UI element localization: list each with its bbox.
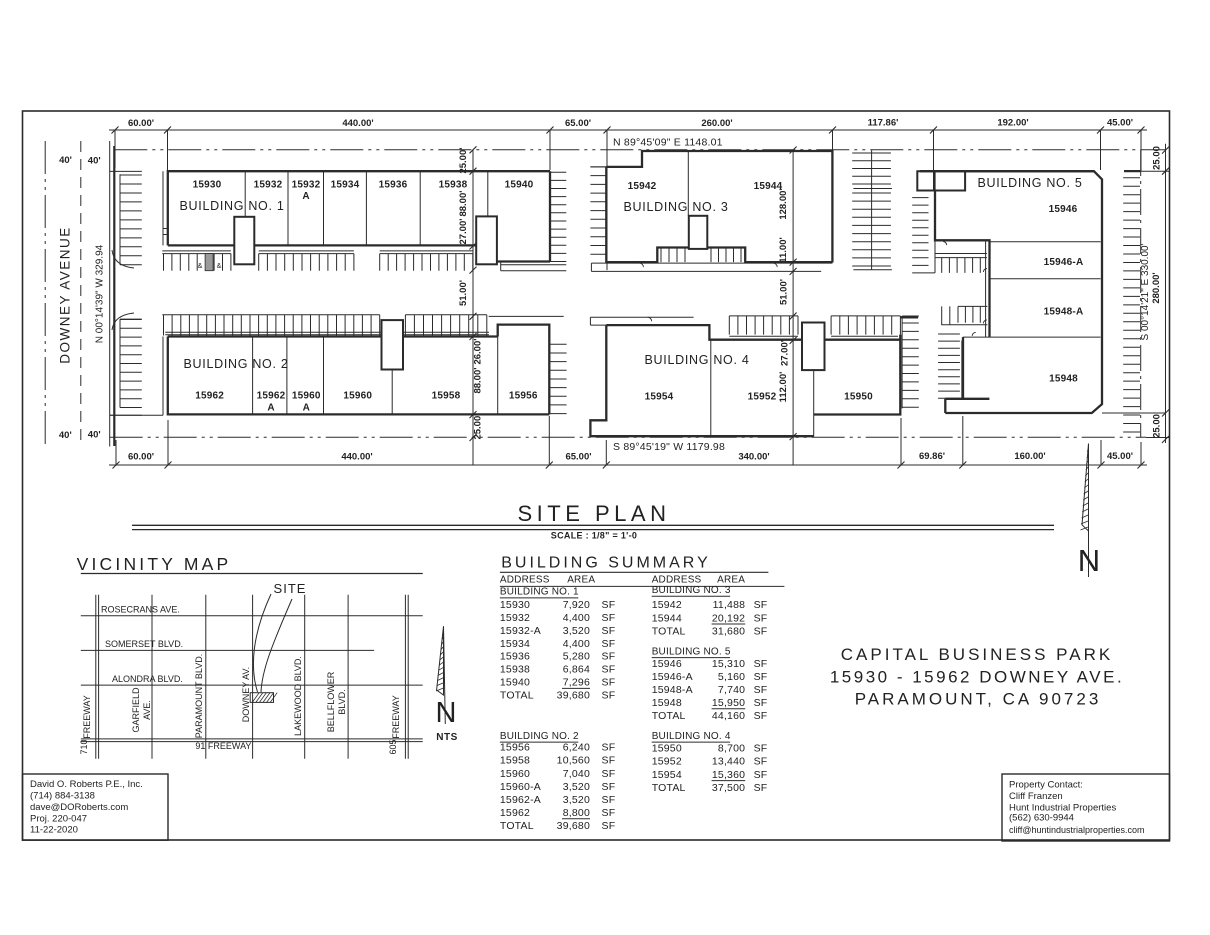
- svg-text:15946-A: 15946-A: [1044, 257, 1084, 268]
- building 4 door mark: [648, 317, 652, 321]
- building 3 inset stalls: [661, 248, 741, 263]
- building 4 north walkway band upper-left: [590, 317, 693, 325]
- svg-text:SF: SF: [602, 612, 616, 624]
- building 3 door marks: [639, 263, 777, 267]
- vicinity map 91 freeway double line: [81, 739, 423, 742]
- svg-text:SF: SF: [754, 599, 768, 611]
- site marker hatched: [250, 693, 277, 703]
- street centerline dash-dot-dot: [44, 141, 46, 447]
- svg-text:15934: 15934: [500, 638, 530, 650]
- svg-text:7,920: 7,920: [563, 599, 590, 611]
- svg-text:SF: SF: [754, 782, 768, 794]
- svg-text:3,520: 3,520: [563, 794, 590, 806]
- svg-text:SITE PLAN: SITE PLAN: [518, 501, 671, 526]
- svg-text:SF: SF: [602, 768, 616, 780]
- building 4 outline: [590, 317, 918, 436]
- site leader curves: [253, 594, 292, 692]
- svg-text:BELLFLOWER: BELLFLOWER: [326, 671, 336, 732]
- svg-text:DOWNEY AVENUE: DOWNEY AVENUE: [58, 226, 73, 364]
- svg-text:BUILDING NO. 4: BUILDING NO. 4: [652, 731, 731, 742]
- building 2 north parking comb: [162, 315, 487, 336]
- svg-text:25.00: 25.00: [1152, 146, 1163, 170]
- svg-text:SF: SF: [602, 781, 616, 793]
- right center dimension line: [792, 150, 794, 465]
- building 1 east parking comb: [550, 172, 567, 261]
- building 2 east parking comb: [489, 316, 567, 413]
- svg-text:15962: 15962: [500, 807, 530, 819]
- svg-text:51.00': 51.00': [778, 279, 789, 305]
- svg-text:N 00°14'39" W 329.94: N 00°14'39" W 329.94: [95, 244, 106, 343]
- svg-text:39,680: 39,680: [557, 820, 590, 832]
- vicinity map street downey: [252, 595, 254, 759]
- svg-text:15932: 15932: [292, 180, 321, 191]
- svg-text:440.00': 440.00': [341, 452, 372, 463]
- svg-text:cliff@huntindustrialproperties: cliff@huntindustrialproperties.com: [1009, 825, 1145, 835]
- svg-text:SF: SF: [602, 677, 616, 689]
- svg-text:A: A: [302, 191, 309, 202]
- svg-text:7,296: 7,296: [563, 677, 590, 689]
- vicinity map street 710 freeway double: [96, 595, 99, 759]
- svg-text:39,680: 39,680: [557, 690, 590, 702]
- svg-text:15932: 15932: [254, 180, 283, 191]
- central dimension line: [472, 150, 474, 465]
- svg-text:15948: 15948: [1049, 374, 1078, 385]
- svg-text:37,500: 37,500: [712, 782, 745, 794]
- svg-text:5,160: 5,160: [718, 671, 745, 683]
- building 4 north parking comb: [729, 316, 900, 335]
- svg-text:A: A: [267, 403, 274, 414]
- svg-text:192.00': 192.00': [997, 118, 1028, 129]
- vicinity map street lakewood: [304, 595, 306, 759]
- svg-text:TOTAL: TOTAL: [652, 782, 686, 794]
- svg-text:6,864: 6,864: [563, 664, 590, 676]
- svg-text:SF: SF: [602, 599, 616, 611]
- svg-text:4,400: 4,400: [563, 638, 590, 650]
- svg-text:Property Contact:: Property Contact:: [1009, 780, 1083, 791]
- svg-text:15954: 15954: [645, 392, 674, 403]
- building 5 courtyard inner wall: [985, 240, 987, 337]
- street east edge line: [109, 141, 111, 447]
- svg-text:15962: 15962: [195, 391, 224, 402]
- street dashed lane line: [80, 141, 82, 447]
- building 3 outline: [606, 151, 832, 263]
- building 2 north walkway band: [165, 332, 489, 335]
- svg-text:SF: SF: [602, 794, 616, 806]
- svg-text:15948-A: 15948-A: [652, 684, 693, 696]
- svg-text:ALONDRA BLVD.: ALONDRA BLVD.: [112, 674, 183, 684]
- west parking comb lower: [110, 319, 142, 415]
- building 1 vestibule B: [476, 216, 497, 264]
- svg-text:BUILDING NO. 5: BUILDING NO. 5: [652, 646, 731, 657]
- svg-text:BUILDING NO. 5: BUILDING NO. 5: [978, 176, 1083, 190]
- svg-text:15960-A: 15960-A: [500, 781, 541, 793]
- svg-text:11,488: 11,488: [713, 599, 746, 611]
- vicinity map street paramount: [205, 595, 207, 759]
- svg-text:15960: 15960: [292, 391, 321, 402]
- bottom dimension extension lines: [116, 416, 1141, 465]
- svg-text:15952: 15952: [652, 756, 682, 768]
- svg-text:PARAMOUNT BLVD.: PARAMOUNT BLVD.: [194, 654, 204, 739]
- west parking comb upper: [110, 171, 142, 264]
- vicinity north arrow needle: [437, 626, 444, 695]
- svg-text:15938: 15938: [500, 664, 530, 676]
- building 4 north walkway band right: [729, 335, 898, 337]
- svg-text:117.86': 117.86': [868, 118, 899, 129]
- svg-text:A: A: [303, 403, 310, 414]
- building summary header underline: [500, 585, 785, 587]
- svg-text:160.00': 160.00': [1014, 451, 1045, 462]
- svg-text:PARAMOUNT, CA 90723: PARAMOUNT, CA 90723: [855, 690, 1102, 709]
- svg-text:15936: 15936: [500, 651, 530, 663]
- svg-text:15932: 15932: [500, 612, 530, 624]
- svg-text:SF: SF: [754, 671, 768, 683]
- property contact box: [1002, 774, 1170, 841]
- svg-text:CAPITAL BUSINESS PARK: CAPITAL BUSINESS PARK: [841, 645, 1113, 664]
- building 5 lower west wall: [961, 340, 963, 399]
- svg-text:15930: 15930: [500, 599, 530, 611]
- svg-text:11-22-2020: 11-22-2020: [30, 824, 78, 835]
- north arrow needle: [1082, 444, 1089, 532]
- svg-text:15958: 15958: [432, 391, 461, 402]
- driveway curb return upper: [112, 250, 134, 268]
- svg-text:27.00': 27.00': [458, 218, 469, 244]
- svg-text:SF: SF: [602, 651, 616, 663]
- building 1 unit separators: [245, 171, 497, 261]
- courtyard comb west of building 5 lower: [938, 334, 960, 398]
- svg-text:15960: 15960: [500, 768, 530, 780]
- svg-text:N: N: [1078, 543, 1100, 578]
- svg-text:15,360: 15,360: [712, 769, 745, 781]
- building 2 unit separators: [253, 325, 498, 415]
- building 5 east parking comb: [1123, 178, 1140, 432]
- building 2 west offset line: [110, 337, 163, 416]
- svg-text:128.00': 128.00': [778, 188, 789, 219]
- svg-text:91 FREEWAY: 91 FREEWAY: [195, 741, 251, 751]
- svg-text:60.00': 60.00': [128, 452, 154, 463]
- svg-text:51.00': 51.00': [458, 280, 469, 306]
- svg-text:27.00': 27.00': [780, 340, 791, 366]
- svg-text:ADDRESS: ADDRESS: [500, 574, 550, 585]
- svg-text:NTS: NTS: [436, 732, 458, 743]
- svg-text:TOTAL: TOTAL: [652, 626, 686, 638]
- svg-text:15948-A: 15948-A: [1044, 307, 1084, 318]
- vicinity map rosecrans ave line: [81, 615, 423, 617]
- drive comb west of building 3: [590, 130, 607, 270]
- svg-text:SF: SF: [602, 690, 616, 702]
- svg-text:112.00': 112.00': [778, 372, 789, 403]
- building 5 top edge: [920, 170, 1094, 172]
- svg-text:15946: 15946: [652, 658, 682, 670]
- svg-text:BUILDING NO. 3: BUILDING NO. 3: [652, 585, 731, 596]
- north arrow stem: [1088, 444, 1090, 578]
- svg-text:dave@DORoberts.com: dave@DORoberts.com: [30, 802, 128, 813]
- svg-text:15952: 15952: [748, 392, 777, 403]
- svg-text:3,520: 3,520: [563, 625, 590, 637]
- building summary title underline: [500, 571, 769, 573]
- building 3 unit separator: [687, 151, 689, 216]
- building 1 south parking stalls: [164, 254, 473, 271]
- svg-text:11.00': 11.00': [778, 237, 789, 263]
- svg-text:SF: SF: [602, 625, 616, 637]
- svg-text:BUILDING NO. 4: BUILDING NO. 4: [645, 353, 750, 367]
- svg-text:SF: SF: [602, 807, 616, 819]
- svg-text:SF: SF: [754, 710, 768, 722]
- vicinity map title underline: [81, 573, 423, 575]
- svg-text:FREEWAY: FREEWAY: [82, 695, 92, 739]
- svg-text:SF: SF: [602, 820, 616, 832]
- svg-text:15962-A: 15962-A: [500, 794, 541, 806]
- svg-text:40': 40': [59, 430, 72, 441]
- building 4 unit separator: [710, 340, 712, 437]
- svg-text:SF: SF: [602, 638, 616, 650]
- svg-text:15954: 15954: [652, 769, 682, 781]
- building 5 west wall thin extension: [934, 240, 936, 273]
- svg-text:BUILDING SUMMARY: BUILDING SUMMARY: [501, 555, 711, 572]
- svg-text:25.00': 25.00': [473, 413, 484, 439]
- svg-text:3,520: 3,520: [563, 781, 590, 793]
- svg-text:DOWNEY AV.: DOWNEY AV.: [241, 667, 251, 722]
- svg-text:88.00': 88.00': [458, 190, 469, 216]
- parcel west boundary heavy: [113, 146, 115, 446]
- building 3 vestibule: [689, 216, 708, 249]
- svg-text:LAKEWOOD BLVD.: LAKEWOOD BLVD.: [293, 656, 303, 736]
- building 5 courtyard walkway upper: [935, 254, 987, 258]
- svg-text:SF: SF: [754, 769, 768, 781]
- svg-text:S 00°14'21" E 330.00': S 00°14'21" E 330.00': [1140, 243, 1151, 340]
- svg-text:15946: 15946: [1049, 204, 1078, 215]
- building 5 west parking comb: [912, 198, 935, 273]
- building 5 northeast wall segment: [1124, 170, 1140, 172]
- svg-text:5,280: 5,280: [563, 651, 590, 663]
- svg-text:SF: SF: [754, 697, 768, 709]
- building 5 courtyard stalls upper: [942, 258, 981, 273]
- svg-text:15942: 15942: [652, 599, 682, 611]
- unit 15950 west wall thin: [813, 369, 815, 436]
- svg-text:AREA: AREA: [567, 574, 595, 585]
- svg-text:N 89°45'09" E 1148.01: N 89°45'09" E 1148.01: [613, 137, 723, 149]
- building 3 west walkway stub: [590, 166, 606, 168]
- svg-text:15956: 15956: [500, 742, 530, 754]
- bottom dimension line: [109, 464, 1147, 466]
- svg-text:BLVD.: BLVD.: [337, 689, 347, 714]
- svg-text:TOTAL: TOTAL: [652, 710, 686, 722]
- svg-text:SF: SF: [754, 658, 768, 670]
- building 1 outline: [168, 171, 550, 261]
- svg-text:SF: SF: [754, 756, 768, 768]
- svg-text:710: 710: [79, 739, 89, 754]
- svg-text:15942: 15942: [628, 181, 657, 192]
- svg-text:TOTAL: TOTAL: [500, 690, 534, 702]
- svg-text:AVE.: AVE.: [142, 700, 152, 720]
- svg-text:15,950: 15,950: [712, 697, 745, 709]
- svg-text:440.00': 440.00': [342, 118, 373, 129]
- svg-text:25.00': 25.00': [458, 147, 469, 173]
- svg-text:SF: SF: [754, 684, 768, 696]
- svg-text:GARFIELD: GARFIELD: [131, 687, 141, 733]
- svg-text:15940: 15940: [505, 180, 534, 191]
- svg-text:SOMERSET BLVD.: SOMERSET BLVD.: [105, 639, 183, 649]
- svg-text:6,240: 6,240: [563, 742, 590, 754]
- svg-text:15950: 15950: [652, 743, 682, 755]
- building 1 vestibule A: [234, 217, 254, 264]
- svg-text:ROSECRANS AVE.: ROSECRANS AVE.: [101, 605, 180, 615]
- svg-text:BUILDING NO. 1: BUILDING NO. 1: [180, 199, 285, 213]
- svg-text:15930 - 15962 DOWNEY AVE.: 15930 - 15962 DOWNEY AVE.: [830, 668, 1124, 687]
- svg-text:26.00': 26.00': [473, 338, 484, 364]
- south property line dash-dot-dot: [110, 436, 1146, 438]
- title double underline: [132, 525, 1054, 529]
- building 5 courtyard door marks: [943, 242, 987, 336]
- north property line dash-dot-dot: [114, 149, 1166, 151]
- building 5 top vestibule: [917, 171, 965, 190]
- svg-text:BUILDING NO. 1: BUILDING NO. 1: [500, 587, 579, 598]
- svg-text:15,310: 15,310: [712, 658, 745, 670]
- building 4 east aisle comb: [902, 316, 919, 408]
- building 5 courtyard stalls lower: [942, 306, 988, 324]
- svg-text:44,160: 44,160: [712, 710, 745, 722]
- svg-text:15950: 15950: [844, 392, 873, 403]
- svg-text:SF: SF: [754, 743, 768, 755]
- svg-text:15940: 15940: [500, 677, 530, 689]
- svg-text:Proj. 220-047: Proj. 220-047: [30, 813, 87, 824]
- building 1 left notch: [163, 229, 168, 235]
- svg-text:65.00': 65.00': [565, 452, 591, 463]
- svg-text:88.00': 88.00': [473, 367, 484, 393]
- svg-text:15946-A: 15946-A: [652, 671, 693, 683]
- svg-text:&: &: [198, 263, 203, 270]
- building 1 west offset line: [162, 171, 164, 245]
- vicinity map street bellflower: [347, 595, 349, 759]
- svg-text:31,680: 31,680: [712, 626, 745, 638]
- building 1 south walkway band: [162, 251, 473, 254]
- svg-text:15960: 15960: [343, 391, 372, 402]
- svg-text:7,040: 7,040: [563, 768, 590, 780]
- east dimension line: [1165, 144, 1167, 443]
- svg-text:15938: 15938: [439, 180, 468, 191]
- svg-text:15944: 15944: [652, 612, 682, 624]
- svg-text:7,740: 7,740: [718, 684, 745, 696]
- svg-text:SF: SF: [754, 612, 768, 624]
- top dimension line: [109, 129, 1147, 131]
- svg-text:BUILDING NO. 3: BUILDING NO. 3: [624, 200, 729, 214]
- svg-text:15962: 15962: [257, 391, 286, 402]
- svg-text:SF: SF: [602, 755, 616, 767]
- svg-text:20,192: 20,192: [712, 612, 745, 624]
- svg-text:Cliff Franzen: Cliff Franzen: [1009, 791, 1063, 802]
- svg-text:(714) 884-3138: (714) 884-3138: [30, 791, 95, 802]
- engineer contact box: [23, 774, 169, 840]
- svg-text:15934: 15934: [331, 180, 360, 191]
- svg-text:TOTAL: TOTAL: [500, 820, 534, 832]
- svg-text:25.00: 25.00: [1152, 414, 1163, 438]
- unit 15940 south walkway: [501, 262, 567, 271]
- svg-text:BUILDING NO. 2: BUILDING NO. 2: [184, 357, 289, 371]
- svg-text:SF: SF: [602, 742, 616, 754]
- central double parking comb upper: [852, 150, 892, 269]
- svg-text:40': 40': [88, 155, 101, 166]
- svg-text:VICINITY MAP: VICINITY MAP: [77, 554, 232, 574]
- svg-text:4,400: 4,400: [563, 612, 590, 624]
- top dimension extension lines: [115, 130, 1141, 190]
- driveway curb return lower: [112, 313, 134, 330]
- svg-text:15936: 15936: [379, 180, 408, 191]
- svg-text:40': 40': [88, 430, 101, 441]
- svg-text:15958: 15958: [500, 755, 530, 767]
- svg-text:340.00': 340.00': [738, 452, 769, 463]
- svg-text:15930: 15930: [193, 180, 222, 191]
- vicinity north arrow stem: [444, 626, 446, 724]
- vicinity map somerset blvd line: [81, 649, 374, 651]
- svg-text:15948: 15948: [652, 697, 682, 709]
- svg-text:ADDRESS: ADDRESS: [652, 574, 702, 585]
- svg-text:65.00': 65.00': [565, 118, 591, 129]
- svg-text:8,800: 8,800: [563, 807, 590, 819]
- svg-text:SITE: SITE: [274, 581, 307, 596]
- svg-text:45.00': 45.00': [1107, 118, 1133, 129]
- svg-text:SCALE : 1/8" = 1'-0: SCALE : 1/8" = 1'-0: [551, 531, 637, 541]
- building 2 outline: [168, 325, 550, 415]
- svg-text:605: 605: [388, 739, 398, 754]
- svg-text:60.00': 60.00': [128, 118, 154, 129]
- svg-text:15932-A: 15932-A: [500, 625, 541, 637]
- east parcel line dash-dot: [1140, 150, 1142, 438]
- page border frame: [23, 111, 1170, 840]
- east dimension connector top: [1102, 171, 1170, 437]
- building 5 outline: [935, 171, 1102, 413]
- svg-text:SF: SF: [602, 664, 616, 676]
- svg-text:40': 40': [59, 155, 72, 166]
- svg-text:45.00': 45.00': [1107, 451, 1133, 462]
- vicinity map street garfield: [151, 595, 153, 759]
- svg-text:69.86': 69.86': [919, 451, 945, 462]
- svg-text:S 89°45'19" W 1179.98: S 89°45'19" W 1179.98: [613, 441, 725, 453]
- building 2 vestibule: [382, 320, 404, 369]
- building 4 vestibule: [802, 323, 825, 371]
- svg-text:(562) 630-9944: (562) 630-9944: [1009, 813, 1074, 824]
- vicinity map alondra blvd line: [81, 684, 423, 686]
- svg-text:13,440: 13,440: [712, 756, 745, 768]
- svg-text:10,560: 10,560: [557, 755, 590, 767]
- svg-text:AREA: AREA: [717, 574, 745, 585]
- svg-text:8,700: 8,700: [718, 743, 745, 755]
- building 3 south walkway band: [591, 263, 832, 271]
- svg-text:David O. Roberts P.E., Inc.: David O. Roberts P.E., Inc.: [30, 779, 143, 790]
- handicap stall hatched: [205, 254, 213, 271]
- svg-text:N: N: [436, 697, 457, 729]
- svg-text:SF: SF: [754, 626, 768, 638]
- building 5 unit separators: [963, 242, 1101, 337]
- vicinity map street 605 freeway double: [405, 595, 408, 759]
- svg-text:15956: 15956: [509, 391, 538, 402]
- svg-text:&: &: [217, 263, 222, 270]
- svg-text:280.00': 280.00': [1151, 272, 1162, 303]
- svg-text:FREEWAY: FREEWAY: [391, 695, 401, 739]
- svg-text:260.00': 260.00': [701, 118, 732, 129]
- svg-text:BUILDING NO. 2: BUILDING NO. 2: [500, 731, 579, 742]
